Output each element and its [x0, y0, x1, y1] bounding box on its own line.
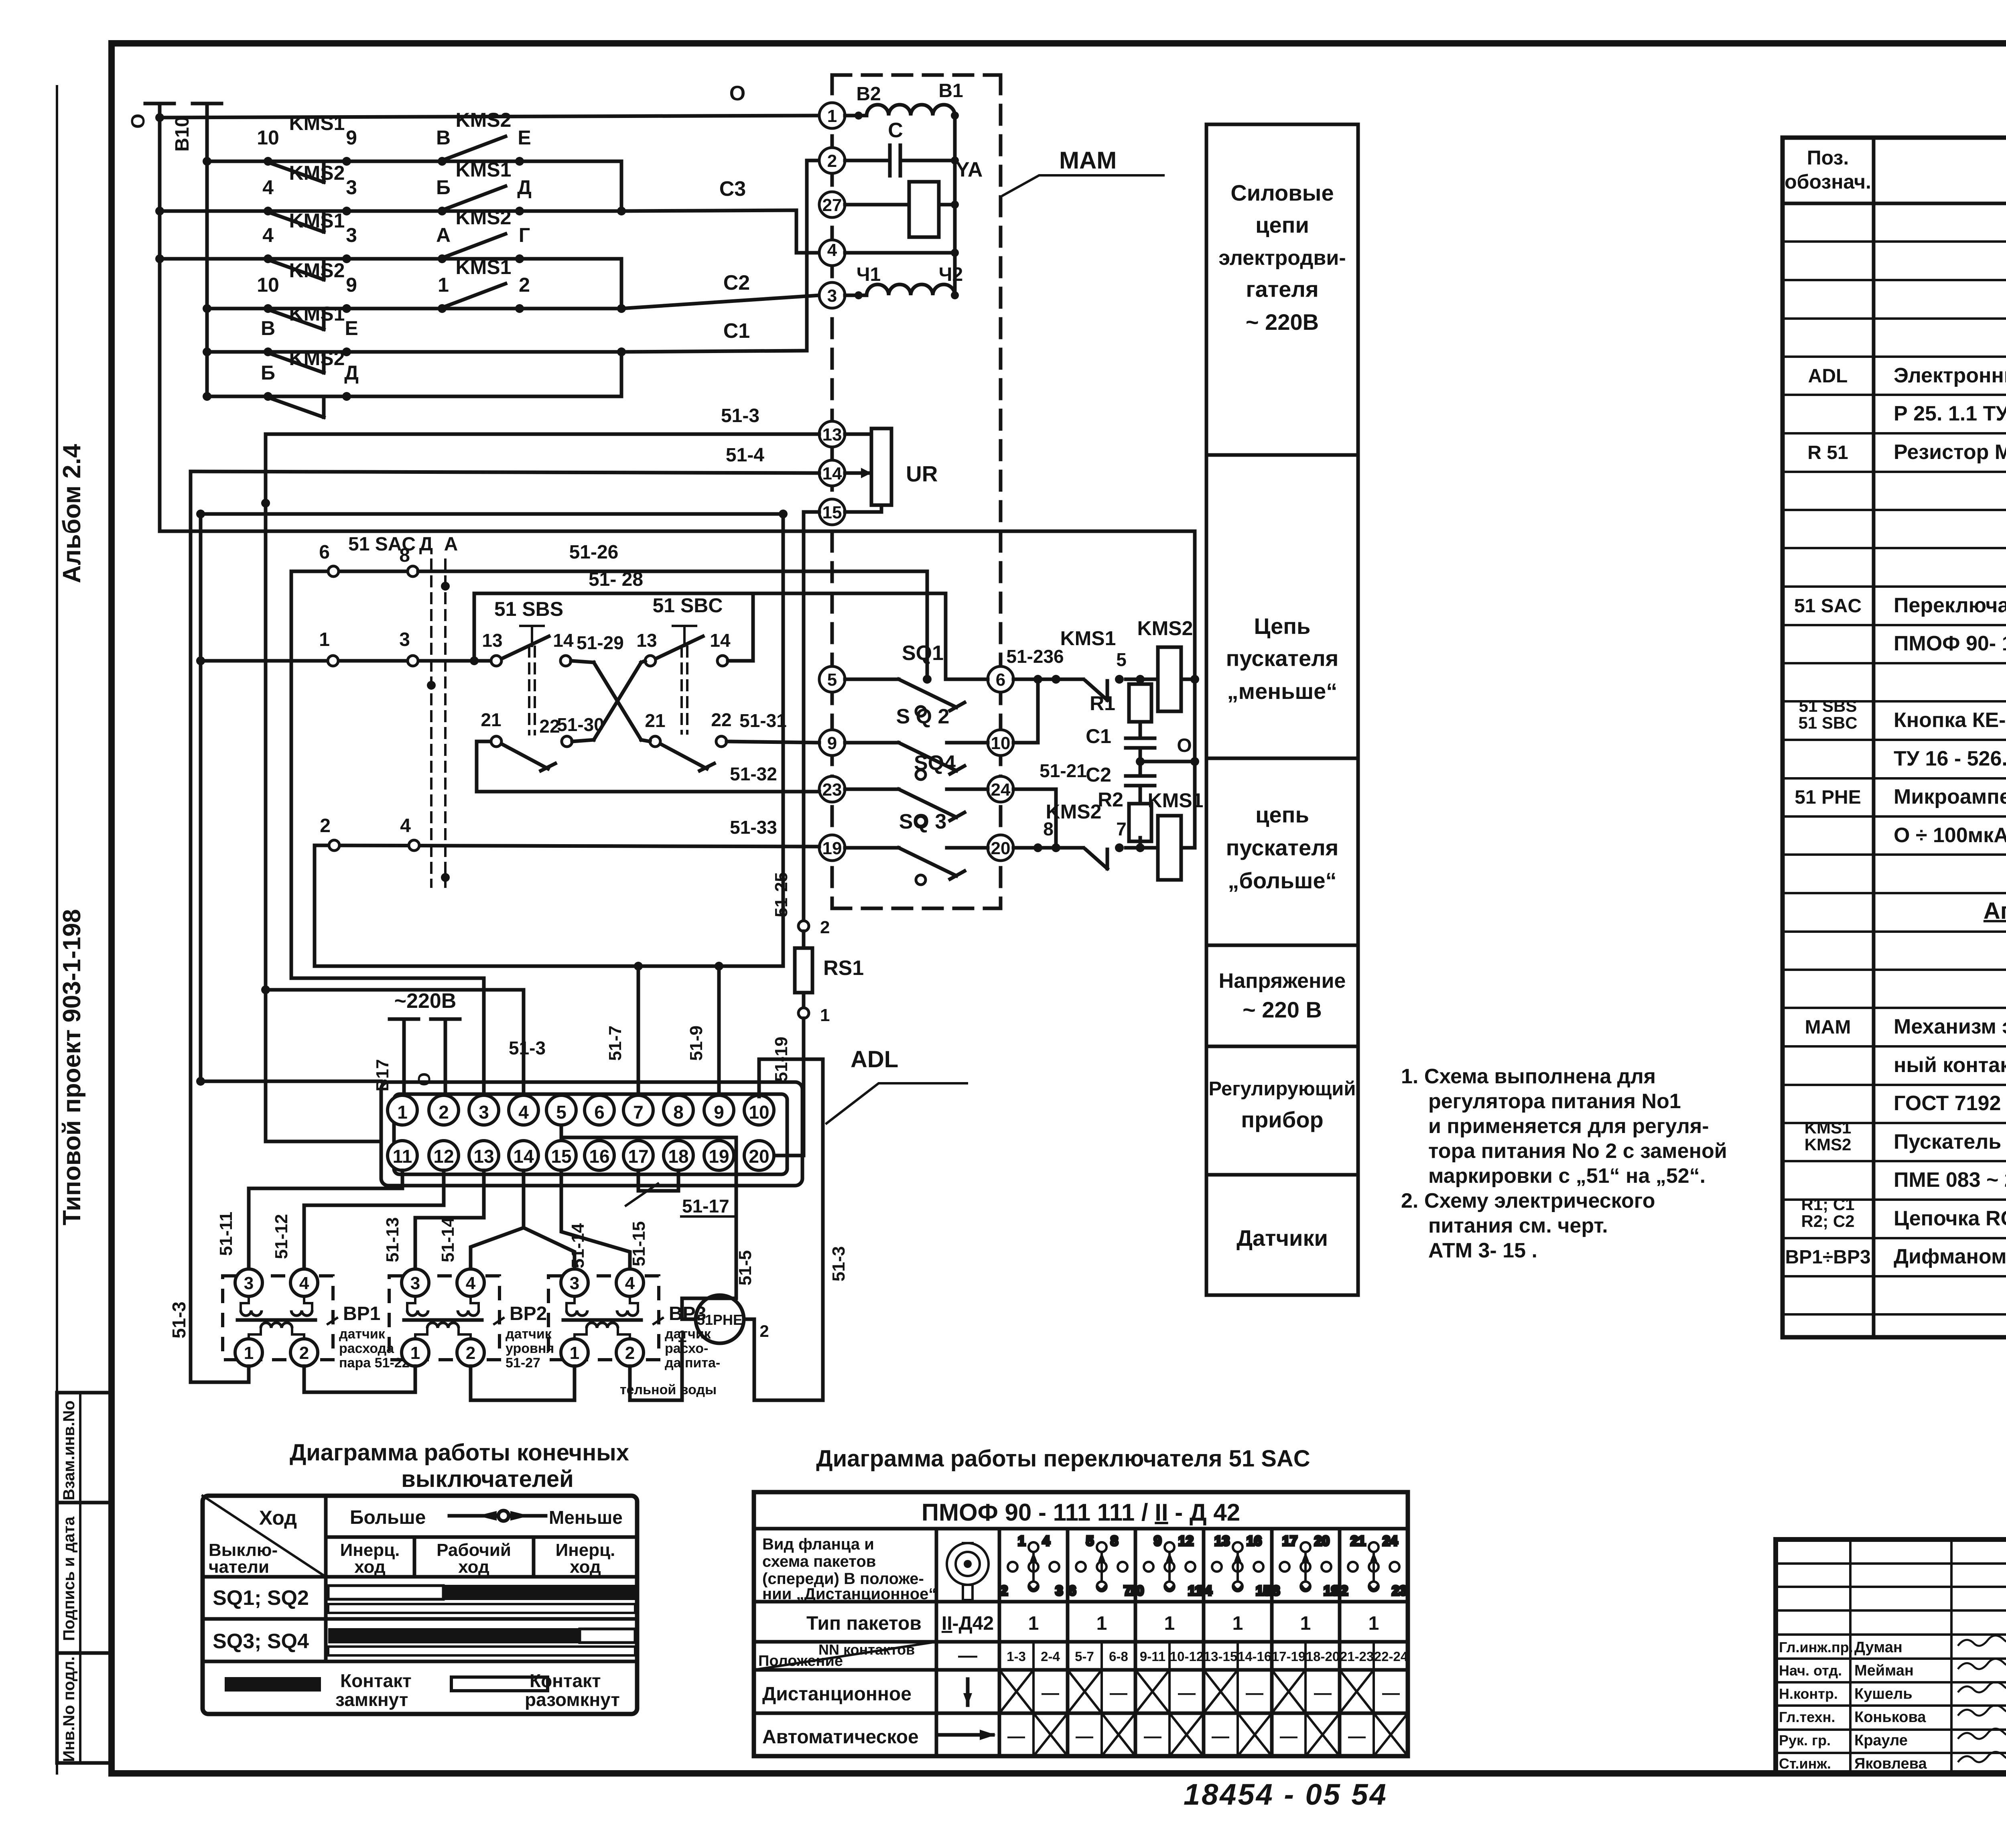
svg-text:SQ1; SQ2: SQ1; SQ2 — [213, 1586, 309, 1610]
svg-text:—: — — [1246, 1683, 1263, 1703]
net from row B down to sensors — [169, 471, 381, 1382]
vertical joining row10 to row6 — [1036, 679, 1040, 743]
coil CH1-CH2 — [845, 264, 963, 299]
svg-text:9-11: 9-11 — [1140, 1649, 1165, 1664]
svg-text:21-23: 21-23 — [1340, 1649, 1374, 1664]
ADL terminal 16 — [585, 1141, 614, 1170]
svg-text:нии „Дистанционное“: нии „Дистанционное“ — [762, 1585, 936, 1603]
terminal 15 — [819, 499, 845, 525]
contact row 3 — [155, 206, 621, 280]
capacitor C1 — [1086, 722, 1155, 748]
svg-text:21: 21 — [1350, 1533, 1366, 1549]
svg-text:Автоматическое: Автоматическое — [762, 1726, 919, 1748]
wire C3 to MAM-4 — [621, 177, 819, 253]
terminal 19 — [819, 835, 845, 861]
diagram 1 table — [203, 1496, 637, 1714]
terminal 13 — [819, 421, 845, 447]
svg-text:ход: ход — [458, 1557, 489, 1577]
wire 51-3 into 13 — [266, 405, 819, 434]
ADL terminal 4 — [509, 1095, 538, 1125]
svg-text:Дистанционное: Дистанционное — [762, 1684, 912, 1705]
ADL terminal 5 — [546, 1095, 576, 1125]
ADL terminal 14 — [509, 1141, 538, 1170]
terminal 9 — [819, 730, 845, 755]
svg-text:5-7: 5-7 — [1075, 1649, 1094, 1664]
terminal 10 — [988, 730, 1013, 755]
terminal 6 — [988, 666, 1013, 692]
resistor R1 — [1090, 679, 1151, 722]
resistor RS1 — [772, 872, 864, 1156]
svg-text:Больше: Больше — [350, 1507, 426, 1528]
svg-text:10: 10 — [1129, 1583, 1144, 1598]
ADL terminal 12 — [429, 1141, 459, 1170]
vertical joining row24 to row20 — [1054, 789, 1058, 848]
svg-text:Диаграмма работы конечных: Диаграмма работы конечных — [290, 1440, 629, 1466]
sensor bottom wires — [191, 1366, 249, 1382]
wire 0 to MAM-1 — [160, 116, 819, 118]
svg-text:24: 24 — [1383, 1533, 1398, 1549]
svg-text:1: 1 — [1368, 1613, 1379, 1634]
svg-text:Положение: Положение — [758, 1653, 843, 1669]
feeder V1952 H2408 — [315, 514, 783, 971]
51SAC row A (6-8) — [291, 534, 418, 577]
svg-text:—: — — [1007, 1726, 1025, 1746]
svg-text:2-4: 2-4 — [1041, 1649, 1060, 1664]
svg-text:22-24: 22-24 — [1374, 1649, 1408, 1664]
sensor ВР2 terminals — [402, 1269, 484, 1366]
notes text — [1401, 1065, 1727, 1262]
MAM dashed enclosure — [832, 75, 1001, 908]
svg-text:2: 2 — [1000, 1583, 1008, 1598]
coil B2-B1 — [845, 80, 963, 120]
zone label column boxes — [1206, 124, 1358, 1295]
left bottom boxes — [57, 1393, 112, 1763]
svg-text:20: 20 — [1314, 1533, 1330, 1549]
diagram 2 table — [754, 1492, 1408, 1756]
svg-text:3: 3 — [1056, 1583, 1063, 1598]
wire ADL10 wrap to sensors right — [754, 1059, 849, 1400]
supply ticks ~220V — [373, 989, 460, 1097]
svg-text:замкнут: замкнут — [335, 1689, 408, 1710]
svg-text:—: — — [1076, 1726, 1093, 1746]
svg-text:6: 6 — [1068, 1583, 1076, 1598]
sensor ВР2 dashed box — [389, 1276, 499, 1360]
svg-text:ход: ход — [570, 1557, 601, 1577]
svg-text:SQ3; SQ4: SQ3; SQ4 — [213, 1630, 309, 1653]
terminal 3 — [819, 282, 845, 308]
terminal 24 — [988, 776, 1013, 802]
KMS2 coil (upper) — [1137, 617, 1195, 711]
resistor R2 — [1098, 788, 1151, 848]
ammeter 51PHE — [677, 1295, 769, 1400]
terminal 1 — [819, 103, 845, 128]
svg-text:1: 1 — [1232, 1613, 1243, 1634]
wire 51-32 — [477, 741, 819, 792]
svg-text:—: — — [1382, 1683, 1400, 1703]
svg-text:1-3: 1-3 — [1007, 1649, 1026, 1664]
svg-text:—: — — [958, 1645, 977, 1666]
svg-text:II-Д42: II-Д42 — [942, 1613, 994, 1634]
svg-text:8: 8 — [1111, 1533, 1118, 1549]
sensor ВР1 dashed box — [223, 1276, 333, 1360]
svg-text:Вид фланца и: Вид фланца и — [762, 1535, 874, 1553]
bus B10 — [172, 104, 221, 396]
ADL terminal 3 — [469, 1095, 499, 1125]
jumper 51-17 between 17 and 18 — [626, 1170, 736, 1216]
table grid rows — [1783, 242, 2006, 1314]
wire 51-26 — [418, 542, 927, 679]
long left vertical net — [261, 434, 524, 1141]
svg-text:17: 17 — [1282, 1533, 1297, 1549]
sensor ВР2 labels — [494, 1303, 554, 1371]
KMS1 coil (lower) — [1140, 789, 1203, 880]
dashed coupler D A — [419, 534, 458, 887]
ADL terminal 15 — [546, 1141, 576, 1170]
sensor wires from ADL bottom — [216, 1170, 649, 1268]
ADL terminal 7 — [623, 1095, 653, 1125]
svg-text:схема пакетов: схема пакетов — [762, 1553, 876, 1570]
svg-text:разомкнут: разомкнут — [525, 1689, 620, 1710]
svg-text:18: 18 — [1265, 1583, 1280, 1598]
ADL terminal 17 — [623, 1141, 653, 1170]
ADL terminal 2 — [429, 1095, 459, 1125]
sensor ВР1 labels — [328, 1303, 410, 1371]
terminal 2 — [819, 148, 845, 173]
ADL terminal 20 — [744, 1141, 774, 1170]
svg-text:6-8: 6-8 — [1109, 1649, 1128, 1664]
wire from 15 to RS1 — [804, 512, 819, 920]
svg-text:1: 1 — [1028, 1613, 1039, 1634]
potentiometer UR — [845, 428, 938, 512]
ADL label with leader — [826, 1046, 967, 1123]
svg-text:—: — — [1178, 1683, 1196, 1703]
sensor ВР3 terminals — [561, 1269, 644, 1366]
svg-text:—: — — [1042, 1683, 1059, 1703]
sensor ВР3 transformer — [563, 1296, 641, 1339]
buttons enclosure and wire 51-28 — [474, 569, 946, 684]
wire from 4 — [845, 251, 955, 255]
svg-text:1: 1 — [1164, 1613, 1175, 1634]
svg-text:1: 1 — [1300, 1613, 1311, 1634]
feeder H1281 — [196, 510, 788, 518]
svg-text:17-19: 17-19 — [1272, 1649, 1306, 1664]
svg-text:—: — — [1348, 1726, 1366, 1746]
svg-text:—: — — [1212, 1726, 1229, 1746]
svg-text:Тип пакетов: Тип пакетов — [806, 1613, 922, 1634]
51SAC row B (1-3) with buttons box — [196, 629, 479, 666]
capacitor C — [845, 119, 955, 176]
svg-text:9: 9 — [1154, 1533, 1161, 1549]
ADL terminal 18 — [664, 1141, 693, 1170]
sensor ВР2 transformer — [404, 1296, 482, 1339]
svg-text:16: 16 — [1247, 1533, 1262, 1549]
51SAC row C (2-4) and wire 51-33 — [315, 815, 819, 851]
inner right bus of MAM — [953, 116, 957, 295]
ADL terminal 11 — [388, 1141, 417, 1170]
terminal 20 — [988, 835, 1013, 861]
svg-text:14: 14 — [1197, 1583, 1212, 1598]
button 51 SBS — [474, 598, 624, 734]
sensor ВР1 terminals — [235, 1269, 318, 1366]
specification table — [1783, 138, 2006, 1337]
contact row 1 — [203, 109, 621, 182]
svg-text:5: 5 — [1086, 1533, 1094, 1549]
svg-text:ПМОФ 90 - 111 111 / II - Д 4: ПМОФ 90 - 111 111 / II - Д 42 — [922, 1499, 1240, 1526]
crossover X — [571, 661, 645, 740]
ADL terminal 10 — [744, 1095, 774, 1125]
svg-text:1: 1 — [1018, 1533, 1025, 1549]
svg-text:18-20: 18-20 — [1306, 1649, 1340, 1664]
svg-text:Диаграмма работы переключате: Диаграмма работы переключателя 51 SAC — [816, 1446, 1310, 1472]
svg-text:14-16: 14-16 — [1238, 1649, 1271, 1664]
contact row 6 — [203, 347, 621, 417]
svg-text:12: 12 — [1178, 1533, 1194, 1549]
terminal 5 — [819, 666, 845, 692]
terminal 23 — [819, 776, 845, 802]
limit switch SQ 3 — [845, 810, 988, 885]
limit switch SQ1 — [845, 642, 988, 716]
ADL terminal 19 — [704, 1141, 734, 1170]
svg-text:22: 22 — [1333, 1583, 1348, 1598]
svg-text:—: — — [1144, 1726, 1161, 1746]
capacitor C2 — [1086, 764, 1155, 800]
ADL terminal 8 — [664, 1095, 693, 1125]
contact row 2 — [155, 158, 621, 232]
svg-text:ход: ход — [354, 1557, 386, 1577]
sensor ВР3 dashed box — [548, 1276, 659, 1360]
sensor ВР3 labels — [654, 1303, 720, 1371]
terminal 27 — [819, 192, 845, 217]
contact row 5 — [203, 303, 621, 373]
ADL terminal block — [381, 1082, 802, 1186]
wire C1 to MAM-2 — [621, 160, 819, 352]
ADL terminal 9 — [704, 1095, 734, 1125]
svg-text:Контакт: Контакт — [340, 1670, 412, 1691]
title block — [1776, 1539, 2006, 1773]
svg-text:Ход: Ход — [259, 1507, 297, 1529]
ADL terminal 1 — [388, 1095, 417, 1125]
net 0 long feeder — [160, 531, 1199, 848]
svg-text:—: — — [1314, 1683, 1332, 1703]
MAM label — [1003, 147, 1163, 195]
wire 51-4 into 14 — [191, 445, 819, 473]
node 0 between C1 C2 — [1136, 735, 1195, 776]
KMS2 NC contact row (lower) — [1013, 800, 1145, 869]
relay YA — [845, 158, 983, 237]
left margin line — [56, 86, 58, 1773]
svg-text:1: 1 — [1096, 1613, 1107, 1634]
svg-text:13: 13 — [1214, 1533, 1230, 1549]
bus 0 — [128, 104, 174, 531]
wire ADL5 to 51PHE — [561, 1126, 755, 1298]
svg-text:—: — — [1110, 1683, 1127, 1703]
svg-text:23: 23 — [1392, 1583, 1407, 1598]
row 21-22 (lower button contacts) — [477, 709, 819, 771]
switch position pictograms — [1066, 1529, 1070, 1756]
svg-text:чатели: чатели — [209, 1557, 269, 1577]
svg-text:—: — — [1280, 1726, 1297, 1746]
ADL terminal 13 — [469, 1141, 499, 1170]
svg-text:Контакт: Контакт — [530, 1670, 601, 1691]
svg-text:выключателей: выключателей — [401, 1466, 574, 1492]
feeders into ADL terminals — [291, 571, 719, 1097]
svg-text:4: 4 — [1042, 1533, 1050, 1549]
limit switch SQ4 — [845, 751, 988, 826]
ADL terminal 6 — [585, 1095, 614, 1125]
svg-text:10-12: 10-12 — [1170, 1649, 1204, 1664]
terminal 14 — [819, 460, 845, 486]
net 51-236 and KMS1 NC contact row — [1006, 627, 1145, 700]
sensor ВР1 transformer — [238, 1296, 315, 1339]
button 51 SBC — [636, 594, 753, 733]
wire C2 to MAM-3 — [621, 271, 819, 309]
limit switch S Q 2 — [845, 705, 988, 780]
terminal 4 — [819, 240, 845, 266]
svg-text:Меньше: Меньше — [549, 1507, 623, 1528]
contact row 4 — [203, 256, 621, 329]
svg-text:13-15: 13-15 — [1204, 1649, 1237, 1664]
